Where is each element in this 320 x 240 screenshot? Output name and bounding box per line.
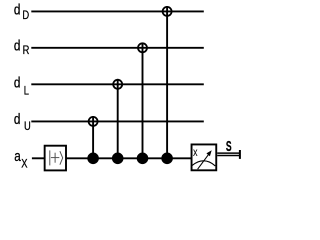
svg-text:d: d — [14, 1, 21, 18]
CNOT 4 vertical wire (a_X to d_D) — [166, 6, 168, 158]
svg-text:X: X — [21, 157, 27, 170]
svg-text:x: x — [193, 147, 198, 159]
CNOT 1 control dot on a_X — [87, 153, 99, 165]
svg-text:d: d — [14, 74, 21, 91]
svg-text:d: d — [14, 37, 21, 54]
state-prep box |+> — [45, 146, 66, 171]
CNOT 3 target on d_R — [138, 43, 147, 52]
label a_X — [14, 148, 27, 171]
label d_R — [14, 37, 30, 57]
CNOT 2 vertical wire (a_X to d_L) — [117, 79, 119, 158]
ket bar | — [49, 150, 51, 165]
wire d_D — [31, 10, 204, 12]
CNOT 4 control dot on a_X — [161, 153, 173, 165]
wire d_U — [31, 120, 204, 122]
CNOT 3 control dot on a_X — [137, 153, 149, 165]
wire d_L — [31, 83, 204, 85]
plus + — [51, 157, 59, 159]
CNOT 4 target on d_D — [163, 7, 172, 16]
wire a_X left segment — [32, 157, 45, 159]
rangle &#10217; — [60, 151, 63, 165]
label d_U — [14, 111, 31, 134]
CNOT 1 vertical wire (a_X to d_U) — [92, 116, 94, 158]
svg-text:S: S — [226, 139, 232, 155]
svg-text:L: L — [24, 84, 29, 97]
meter needle — [198, 153, 210, 169]
svg-text:d: d — [14, 111, 21, 128]
needle arrowhead — [206, 150, 211, 156]
CNOT 2 target on d_L — [113, 80, 122, 89]
svg-text:a: a — [14, 148, 21, 165]
label d_L — [14, 74, 29, 98]
svg-text:D: D — [22, 9, 29, 22]
label d_D — [14, 1, 29, 22]
CNOT 2 control dot on a_X — [112, 153, 124, 165]
CNOT 3 vertical wire (a_X to d_R) — [142, 43, 144, 159]
wire a_X middle segment — [66, 157, 192, 159]
label S — [226, 139, 232, 155]
classical wire terminator — [239, 150, 241, 159]
measurement box M (x basis) — [192, 144, 217, 170]
meter arc — [192, 161, 215, 166]
svg-text:U: U — [24, 120, 31, 133]
CNOT 1 target on d_U — [89, 117, 98, 126]
basis label x — [193, 147, 198, 159]
svg-text:R: R — [23, 44, 30, 57]
classical wire (double line) — [217, 152, 240, 154]
wire d_R — [31, 47, 204, 49]
